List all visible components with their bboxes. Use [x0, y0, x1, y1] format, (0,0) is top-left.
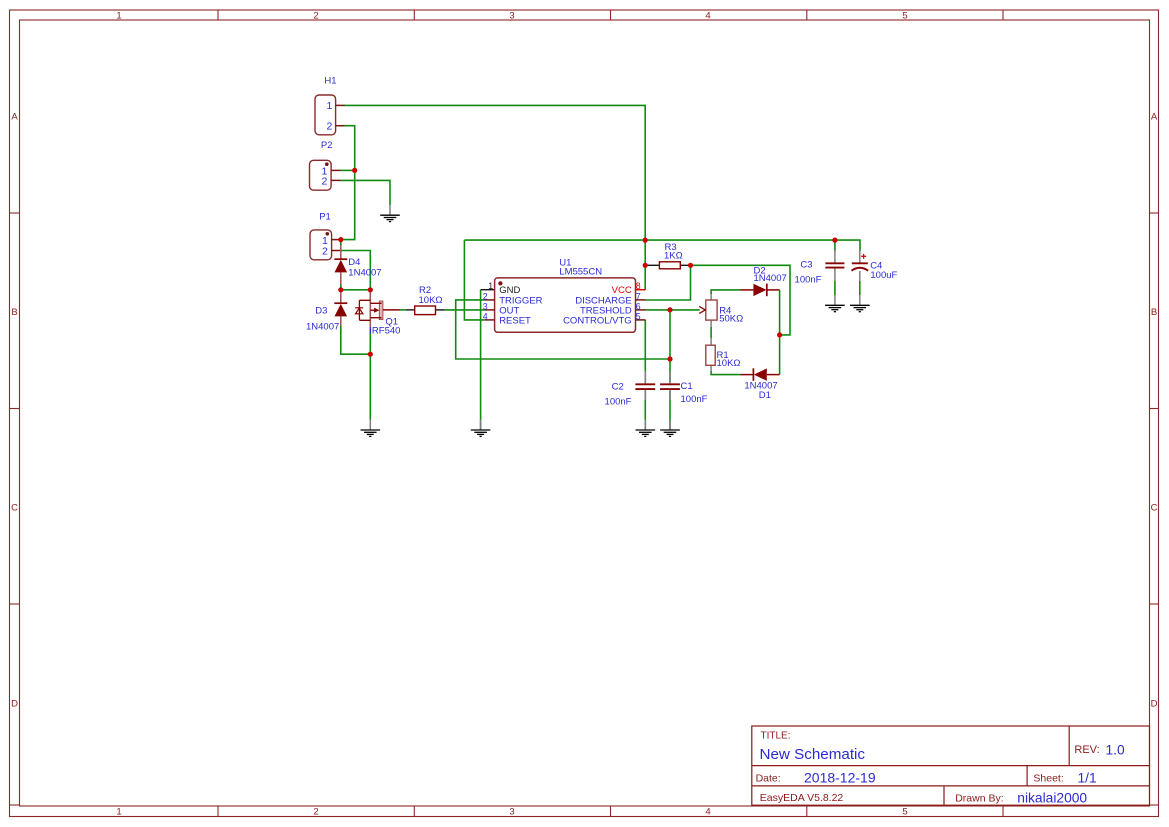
connector P2: [310, 160, 341, 190]
wire R2 to pin3 OUT: [445, 309, 485, 311]
svg-text:2: 2: [313, 11, 318, 22]
connector P1: [310, 230, 341, 260]
junction threshold node: [667, 307, 672, 312]
svg-text:1: 1: [116, 11, 121, 22]
svg-text:5: 5: [902, 11, 907, 22]
lead C1 bottom: [669, 390, 671, 400]
lead R3 right: [680, 264, 690, 266]
svg-text:1: 1: [116, 807, 121, 818]
svg-text:3: 3: [509, 11, 514, 22]
svg-text:1N4007: 1N4007: [348, 268, 381, 279]
wire U1 GND to ground: [480, 290, 482, 430]
wire P2 pin2 to ground: [341, 180, 391, 205]
capacitor C2: [635, 384, 655, 389]
ruler numbers bottom: [116, 807, 907, 818]
svg-text:P1: P1: [319, 211, 331, 222]
component pin leads (black): [406, 265, 691, 310]
transistor Q1 IRF540: [355, 290, 399, 330]
junction VCC rail node: [643, 238, 648, 243]
wire trigger net pin2 down and across: [456, 300, 670, 359]
svg-text:D: D: [11, 699, 18, 710]
junction D4 anode node: [338, 287, 343, 292]
svg-text:1KΩ: 1KΩ: [664, 250, 683, 261]
svg-text:Drawn By:: Drawn By:: [955, 793, 1003, 805]
lead R3 left: [645, 264, 659, 266]
lead C2 bottom: [644, 390, 646, 400]
ruler numbers top: [116, 11, 907, 22]
junction dots: [338, 168, 837, 362]
wire C1 bottom to ground: [669, 390, 671, 429]
svg-text:2: 2: [322, 175, 328, 187]
plus sign C4: [861, 254, 866, 259]
svg-text:RESET: RESET: [499, 315, 531, 326]
connector H1: [315, 95, 345, 135]
lead C1 ground stem: [669, 420, 671, 430]
svg-text:IRF540: IRF540: [369, 326, 400, 337]
wire R3 right to D2 loop top: [691, 265, 791, 335]
lead R2 right: [436, 309, 445, 311]
ground C2: [636, 430, 656, 436]
lead U1 ground stem: [480, 420, 482, 430]
svg-text:B: B: [1151, 307, 1157, 318]
wire P1 pin2 to Q1 drain column: [341, 251, 371, 290]
svg-text:New Schematic: New Schematic: [760, 746, 866, 763]
capacitor C4 polarized: [852, 263, 869, 270]
wire H1 pin1 to VCC rail: [344, 105, 645, 240]
svg-text:D4: D4: [348, 257, 360, 268]
svg-text:1: 1: [488, 281, 493, 291]
diode D3: [334, 290, 347, 326]
wire D1 cathode to R1 bottom: [711, 371, 740, 375]
ground U1 GND: [471, 430, 491, 436]
wire D4 D3 junction row: [341, 289, 371, 291]
resistor R1: [706, 345, 715, 365]
wire Q1 source to ground: [369, 330, 371, 420]
junction C3 top node: [832, 238, 837, 243]
lead R2 left: [406, 309, 415, 311]
junction Q1 drain node: [368, 287, 373, 292]
ruler letters left: [11, 112, 18, 710]
junction R3 right node: [688, 263, 693, 268]
svg-text:100nF: 100nF: [605, 396, 632, 407]
wire Q1 gate to R2: [400, 309, 406, 311]
lead C4 top: [859, 251, 861, 263]
wire overlay D4 bottom: [340, 284, 342, 290]
svg-text:1.0: 1.0: [1106, 742, 1126, 757]
wire H1 pin2 down to P1 pin1: [341, 126, 355, 240]
svg-text:10KΩ: 10KΩ: [419, 295, 443, 306]
wire pin6 to R4 wiper: [646, 309, 700, 311]
svg-text:EasyEDA V5.8.22: EasyEDA V5.8.22: [760, 792, 844, 804]
junction P2 pin1 node: [352, 168, 357, 173]
capacitor C1: [660, 384, 680, 389]
svg-text:3: 3: [509, 807, 514, 818]
svg-text:6: 6: [636, 301, 641, 311]
WIRES: [341, 105, 861, 429]
lead C4 ground stem: [859, 295, 861, 305]
wire pin4 RESET riser: [464, 240, 484, 320]
svg-text:3: 3: [483, 301, 488, 311]
svg-text:Date:: Date:: [756, 772, 781, 784]
wire D3 bottom to source row: [341, 326, 371, 354]
lead C3 top: [834, 251, 836, 263]
svg-text:C2: C2: [612, 382, 624, 393]
svg-text:CONTROL/VTG: CONTROL/VTG: [563, 315, 632, 326]
svg-text:D: D: [1151, 699, 1158, 710]
svg-text:2: 2: [322, 246, 328, 258]
ground Q1 source: [361, 430, 381, 436]
wire C2 bottom to ground: [644, 390, 646, 429]
op-amp U1 LM555CN body: [485, 278, 646, 332]
wire top VCC rail: [464, 240, 860, 250]
lead R1 top: [710, 338, 712, 345]
junction trigger node: [667, 356, 672, 361]
ground C3: [825, 305, 845, 311]
wire P2 pin1 to column: [341, 169, 355, 171]
svg-text:4: 4: [705, 807, 710, 818]
svg-text:nikalai2000: nikalai2000: [1017, 790, 1087, 805]
svg-text:D3: D3: [315, 306, 327, 317]
svg-text:C: C: [1151, 503, 1158, 514]
component pin leads (gray): [370, 205, 860, 429]
svg-text:REV:: REV:: [1074, 744, 1099, 756]
lead Q1 ground stem: [369, 420, 371, 430]
wire D1 node down to D1 anode: [779, 335, 781, 375]
lead C2 ground stem: [644, 420, 646, 430]
ruler letters right: [1151, 112, 1158, 710]
svg-text:A: A: [11, 112, 18, 123]
diode D2: [740, 284, 780, 297]
capacitor C3: [825, 263, 844, 267]
svg-text:P2: P2: [321, 140, 333, 151]
svg-text:B: B: [11, 307, 17, 318]
svg-text:1N4007: 1N4007: [754, 273, 787, 284]
junction D2 D1 node: [777, 332, 782, 337]
junction R3 left node: [643, 263, 648, 268]
junction P1 pin1 node: [338, 237, 343, 242]
svg-text:D1: D1: [759, 390, 771, 401]
svg-text:A: A: [1151, 112, 1158, 123]
potentiometer R4: [699, 300, 717, 320]
wire C3 column top: [834, 240, 836, 250]
resistor R2: [415, 306, 436, 315]
ground C4: [850, 305, 870, 311]
wire overlay D4 top: [340, 240, 342, 246]
svg-text:100nF: 100nF: [795, 274, 822, 285]
lead R4 top: [710, 294, 712, 300]
svg-text:50KΩ: 50KΩ: [719, 313, 743, 324]
svg-text:4: 4: [483, 311, 488, 321]
svg-text:7: 7: [636, 291, 641, 301]
svg-text:C: C: [11, 503, 18, 514]
svg-text:100uF: 100uF: [870, 270, 897, 281]
svg-text:10KΩ: 10KΩ: [717, 358, 741, 369]
svg-text:LM555CN: LM555CN: [559, 266, 602, 277]
svg-text:5: 5: [902, 807, 907, 818]
svg-text:2: 2: [326, 120, 332, 132]
wire R4 top to D2: [711, 290, 740, 294]
wire node column pin6 to C1: [669, 310, 671, 383]
wire VCC column to R3 and pin8: [644, 240, 646, 290]
resistor R3: [659, 262, 680, 269]
svg-text:1N4007: 1N4007: [306, 321, 339, 332]
diode D1: [740, 368, 779, 381]
pin U1-1 GND stub: [481, 289, 495, 291]
lead R4 bottom: [710, 320, 712, 327]
svg-text:1/1: 1/1: [1078, 770, 1097, 785]
lead R1 bottom: [710, 365, 712, 371]
svg-text:100nF: 100nF: [681, 394, 708, 405]
wire C4 below plates: [859, 281, 861, 295]
lead C3 ground stem: [834, 295, 836, 305]
ground P2: [380, 215, 400, 221]
wire D2 cathode down to D1 node: [779, 290, 781, 335]
wire C3 below plates: [834, 281, 836, 295]
svg-text:2: 2: [483, 291, 488, 301]
diode D4: [334, 240, 347, 290]
wire pin5 to C2: [644, 320, 646, 383]
ground C1: [660, 430, 680, 436]
lead P2 ground stem: [389, 205, 391, 215]
lead C4 bottom: [859, 271, 861, 281]
svg-text:1: 1: [326, 100, 332, 112]
svg-text:Sheet:: Sheet:: [1033, 772, 1063, 784]
svg-text:4: 4: [705, 11, 710, 22]
svg-text:C1: C1: [681, 381, 693, 392]
lead C3 bottom: [834, 268, 836, 281]
svg-text:H1: H1: [324, 76, 336, 87]
svg-text:5: 5: [636, 311, 641, 321]
lead C2 top: [644, 371, 646, 384]
junction Q1 source node: [368, 352, 373, 357]
svg-text:8: 8: [636, 281, 641, 291]
svg-text:2: 2: [313, 807, 318, 818]
wire R3 right down to pin7: [646, 265, 691, 300]
title block frame: [752, 726, 1150, 805]
svg-text:C3: C3: [800, 259, 812, 270]
svg-text:TITLE:: TITLE:: [761, 731, 791, 742]
svg-text:2018-12-19: 2018-12-19: [804, 769, 876, 785]
wire R4 R1 mid link: [710, 327, 712, 339]
lead C1 top: [669, 371, 671, 384]
